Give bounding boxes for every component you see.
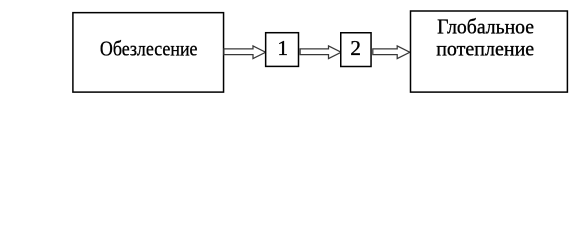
svg-text:1: 1 xyxy=(277,36,288,60)
arrow 1 (left box to box 1) xyxy=(224,46,266,59)
arrow 3 (box 2 to right box) xyxy=(373,46,410,59)
svg-text:2: 2 xyxy=(350,36,361,60)
svg-text:потепление: потепление xyxy=(436,37,534,61)
svg-text:Глобальное: Глобальное xyxy=(437,15,534,39)
box: Глобальное потепление xyxy=(411,11,568,92)
box 2 xyxy=(341,33,371,67)
svg-text:Обезлесение: Обезлесение xyxy=(100,37,198,61)
box: Обезлесение xyxy=(73,13,224,92)
box 1 xyxy=(266,33,299,67)
arrow 2 (box 1 to box 2) xyxy=(300,46,341,59)
